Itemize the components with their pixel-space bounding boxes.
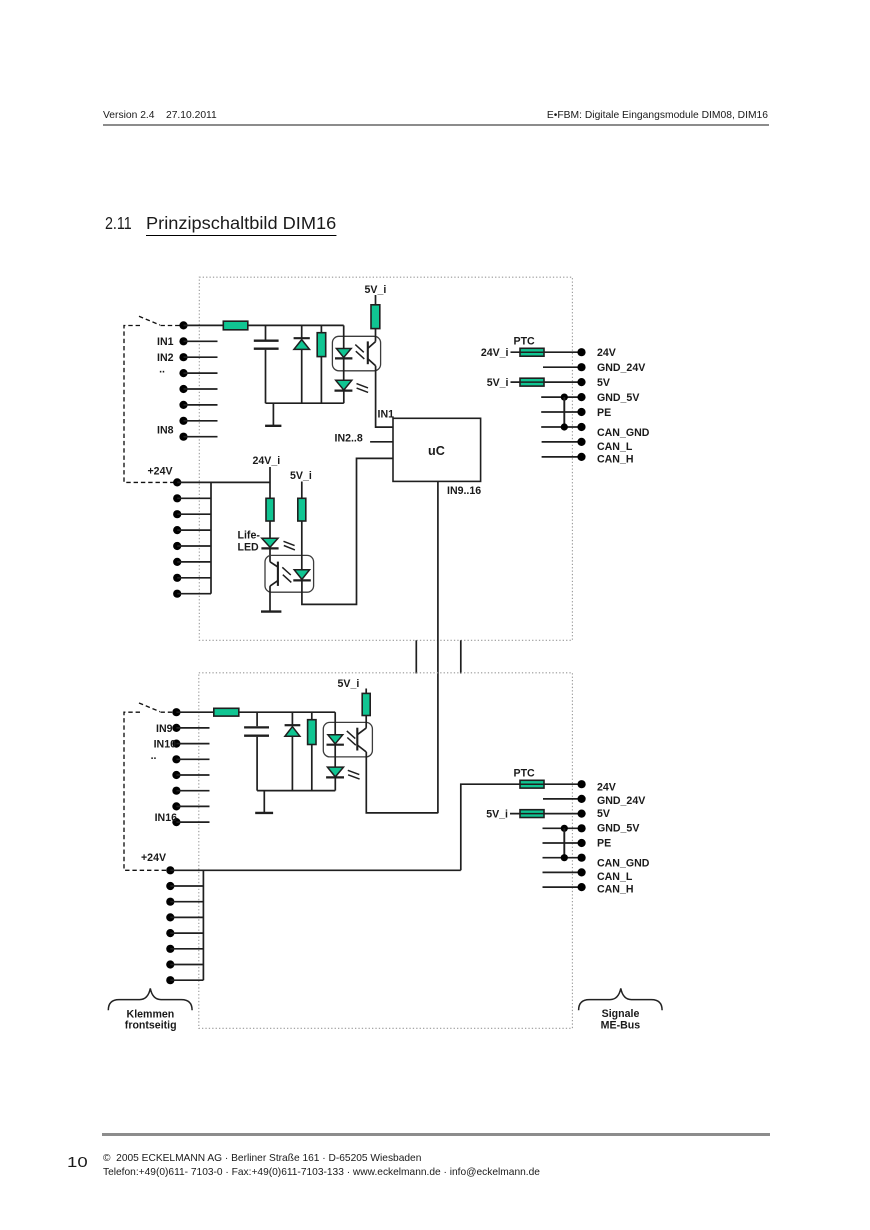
svg-text:IN9: IN9 <box>156 723 173 735</box>
wire CAN_H block2 <box>543 886 579 888</box>
resistor 5V_i block1 <box>511 378 579 386</box>
wire IN2..8 stub <box>370 441 393 443</box>
wire +24V stubs block2 <box>170 886 203 980</box>
label IN9 <box>151 723 177 824</box>
svg-text:Life-: Life- <box>238 529 261 541</box>
svg-text:LED: LED <box>238 541 260 553</box>
optocoupler U2 phototransistor <box>270 562 278 612</box>
terminal CAN_L dot block2 <box>578 868 586 876</box>
brace Klemmen <box>108 988 192 1010</box>
header right text <box>0 111 768 121</box>
label IN2..8 pin <box>335 433 363 445</box>
wire PE block1 <box>541 411 578 413</box>
terminal CAN_GND dot block2 <box>578 854 586 862</box>
label PTC block1 <box>514 336 536 348</box>
node junction GND_5V block2 <box>561 825 568 832</box>
resistor R3 pullup 5V_i <box>371 295 380 342</box>
resistor R4 24V_i <box>266 467 274 538</box>
label 5V_i pullup block2 <box>338 678 360 690</box>
LED D2 channel status <box>335 380 353 403</box>
label 5V_i row block2 <box>486 809 508 821</box>
resistor R2 shunt <box>317 325 326 403</box>
wire +24V rail block1 <box>177 481 270 483</box>
wire CAN_L block2 <box>543 871 579 873</box>
svg-text:IN2..8: IN2..8 <box>335 433 363 445</box>
LED D3 light arrows <box>284 541 295 550</box>
wire U4 emitter to uC bus <box>366 752 438 813</box>
optocoupler U2 LED <box>293 570 311 581</box>
terminal IN9..IN16 dots <box>172 708 180 826</box>
svg-text:IN10: IN10 <box>154 739 176 751</box>
svg-text:5V_i: 5V_i <box>365 284 387 296</box>
footer line 1 <box>103 1154 421 1164</box>
wire GND_24V block1 <box>543 366 578 368</box>
label IN9..16 pin <box>447 485 481 497</box>
optocoupler U4 light arrows <box>347 731 356 745</box>
wire inter-block stub left <box>415 640 417 673</box>
terminal GND_24V dot block2 <box>578 795 586 803</box>
svg-text:GND_24V: GND_24V <box>597 362 645 374</box>
svg-text:CAN_L: CAN_L <box>597 871 633 883</box>
svg-text:CAN_GND: CAN_GND <box>597 857 650 869</box>
optocoupler U2 body <box>265 555 314 592</box>
LED D5 channel status <box>326 767 344 791</box>
switch S2 dashed field wiring <box>124 703 176 870</box>
optocoupler U1 body <box>332 336 380 371</box>
footer page number 10 <box>67 1156 88 1171</box>
ground GND2 <box>261 610 281 612</box>
resistor R8 pullup 5V_i block2 <box>362 689 370 728</box>
label IN1 <box>157 336 174 436</box>
resistor R6 series <box>214 708 239 716</box>
svg-text:IN2: IN2 <box>157 352 174 364</box>
wire CAN_L block1 <box>542 441 578 443</box>
wire junction vertical block2 <box>563 828 565 857</box>
svg-text:5V_i: 5V_i <box>486 809 508 821</box>
wire PE block2 <box>543 842 579 844</box>
wire CAN_H block1 <box>542 456 578 458</box>
wire +24V rail block2 <box>170 869 461 871</box>
wire +24V stubs block1 <box>177 498 211 593</box>
label uC <box>428 444 445 458</box>
svg-text:Signale: Signale <box>602 1008 640 1020</box>
terminal CAN_L dot block1 <box>577 438 585 446</box>
svg-text:PTC: PTC <box>514 768 536 780</box>
node junction GND_5V block1 <box>561 394 568 401</box>
label 5V_i pullup <box>365 284 387 296</box>
capacitor C2 <box>244 712 269 790</box>
switch S1 dashed field wiring <box>124 316 183 482</box>
optocoupler U4 phototransistor <box>357 728 366 752</box>
resistor R5 5V_i life <box>298 482 306 570</box>
svg-text:PE: PE <box>597 407 611 419</box>
svg-text:frontseitig: frontseitig <box>125 1020 177 1032</box>
optocoupler U4 body <box>323 722 372 757</box>
svg-text:24V: 24V <box>597 347 616 359</box>
resistor PTC block2 <box>520 780 578 788</box>
node junction CAN_GND block1 <box>561 423 568 430</box>
wire IN1 to uC <box>376 366 393 427</box>
wire +24V bus block2 <box>202 870 204 980</box>
svg-text:IN8: IN8 <box>157 424 174 436</box>
module block 1 dotted border <box>199 277 572 640</box>
resistor PTC block1 <box>511 348 579 356</box>
terminal 24V dot block2 <box>578 780 586 788</box>
wire GND_24V block2 <box>543 798 578 800</box>
svg-text:CAN_H: CAN_H <box>597 454 634 466</box>
wire bottom rail block2 <box>257 790 335 792</box>
label +24V block1 <box>148 466 173 478</box>
module block 2 dotted border <box>199 673 573 1029</box>
resistor R1 series <box>223 321 248 330</box>
wire GND_5V block1 <box>541 396 578 398</box>
svg-text:IN1: IN1 <box>157 336 174 348</box>
labels ME-Bus signals block2 <box>597 782 650 883</box>
capacitor C1 <box>254 325 279 403</box>
terminal PE dot block2 <box>578 839 586 847</box>
resistor 5V_i block2 <box>510 810 578 818</box>
wire inter-block stub right <box>460 640 462 673</box>
optocoupler U1 LED <box>335 325 352 380</box>
svg-text:IN9..16: IN9..16 <box>447 485 481 497</box>
ground GND1 <box>265 403 281 426</box>
terminal GND_5V dot block2 <box>578 824 586 832</box>
svg-text:5V: 5V <box>597 377 610 389</box>
svg-text:GND_5V: GND_5V <box>597 823 639 835</box>
wire input rail block2 <box>176 711 335 713</box>
node junction CAN_GND block2 <box>561 854 568 861</box>
label 24V_i life <box>253 455 281 467</box>
svg-text:5V_i: 5V_i <box>338 678 360 690</box>
label 5V_i row block1 <box>487 377 509 389</box>
svg-text:IN16: IN16 <box>155 812 177 824</box>
svg-text:24V_i: 24V_i <box>481 347 509 359</box>
wire GND_5V block2 <box>543 827 579 829</box>
label IN1 pin <box>378 409 395 421</box>
label +24V block2 <box>141 852 166 864</box>
svg-text:5V_i: 5V_i <box>487 377 509 389</box>
wire +24V feed to PTC block2 <box>461 784 520 870</box>
terminal +24V dots block2 <box>166 866 174 984</box>
svg-text:PE: PE <box>597 837 611 849</box>
svg-text:GND_24V: GND_24V <box>597 795 645 807</box>
LED D5 light arrows <box>348 770 360 779</box>
brace Signale <box>579 988 663 1010</box>
wire stubs IN10..IN16 <box>176 728 209 822</box>
ground GND3 <box>255 791 273 813</box>
labels ME-Bus signals block1 <box>597 347 650 466</box>
LED D2 light arrows <box>357 384 369 393</box>
footer rule <box>102 1133 770 1136</box>
terminal CAN_H dot block2 <box>578 883 586 891</box>
wire CAN_GND block1 <box>541 426 578 428</box>
svg-text:+24V: +24V <box>148 466 173 478</box>
svg-text:24V: 24V <box>597 782 616 794</box>
optocoupler U1 phototransistor <box>368 341 376 365</box>
wire input rail <box>184 324 344 326</box>
svg-text:CAN_GND: CAN_GND <box>597 427 650 439</box>
terminal GND_5V dot block1 <box>577 393 585 401</box>
terminal CAN_H dot block1 <box>577 453 585 461</box>
terminal 5V dot block1 <box>577 378 585 386</box>
wire U2 LED to uC <box>302 458 393 604</box>
svg-text:GND_5V: GND_5V <box>597 392 639 404</box>
terminal IN1..IN8 dots <box>179 321 187 441</box>
svg-text:5V_i: 5V_i <box>290 470 312 482</box>
optocoupler U2 light arrows <box>282 567 291 582</box>
label 5V_i life <box>290 470 312 482</box>
wire +24V bus block1 <box>210 482 212 593</box>
svg-text:24V_i: 24V_i <box>253 455 281 467</box>
header rule <box>103 124 769 126</box>
wire stubs IN2..IN8 <box>184 341 218 436</box>
optocoupler U1 light arrows <box>355 345 364 359</box>
svg-text:5V: 5V <box>597 808 610 820</box>
label PTC block2 <box>514 768 536 780</box>
header left text <box>103 111 217 121</box>
op-amp uC microcontroller U3 <box>393 418 481 481</box>
svg-text:..: .. <box>159 364 165 376</box>
optocoupler U4 LED <box>327 712 344 767</box>
svg-text:Klemmen: Klemmen <box>127 1008 175 1020</box>
terminal 24V dot block1 <box>577 348 585 356</box>
svg-text:CAN_H: CAN_H <box>597 883 634 895</box>
label CAN_H block2 <box>597 883 634 895</box>
footer line 2 <box>103 1168 540 1178</box>
resistor R7 shunt <box>308 712 316 790</box>
wire uC IN9..16 bus down to block 2 <box>437 481 439 813</box>
wire bottom rail <box>266 402 344 404</box>
diode D4 suppressor <box>285 712 301 790</box>
label Klemmen frontseitig <box>125 1008 177 1031</box>
label Signale ME-Bus <box>601 1008 641 1032</box>
diode D1 suppressor <box>294 325 310 403</box>
section title 2.11 <box>105 215 132 233</box>
svg-text:IN1: IN1 <box>378 409 395 421</box>
label 24V_i PTC row <box>481 347 509 359</box>
LED D3 Life-LED <box>261 538 278 562</box>
terminal 5V dot block2 <box>578 810 586 818</box>
wire CAN_GND block2 <box>543 857 579 859</box>
terminal +24V dots block1 <box>173 478 181 598</box>
terminal PE dot block1 <box>577 408 585 416</box>
svg-text:..: .. <box>151 750 157 762</box>
svg-text:CAN_L: CAN_L <box>597 441 633 453</box>
wire junction vertical block1 <box>563 397 565 427</box>
terminal GND_24V dot block1 <box>577 363 585 371</box>
svg-text:ME-Bus: ME-Bus <box>601 1020 641 1032</box>
svg-text:uC: uC <box>428 444 445 458</box>
label Life-LED <box>238 529 261 553</box>
terminal CAN_GND dot block1 <box>577 423 585 431</box>
svg-text:PTC: PTC <box>514 336 536 348</box>
svg-text:+24V: +24V <box>141 852 166 864</box>
